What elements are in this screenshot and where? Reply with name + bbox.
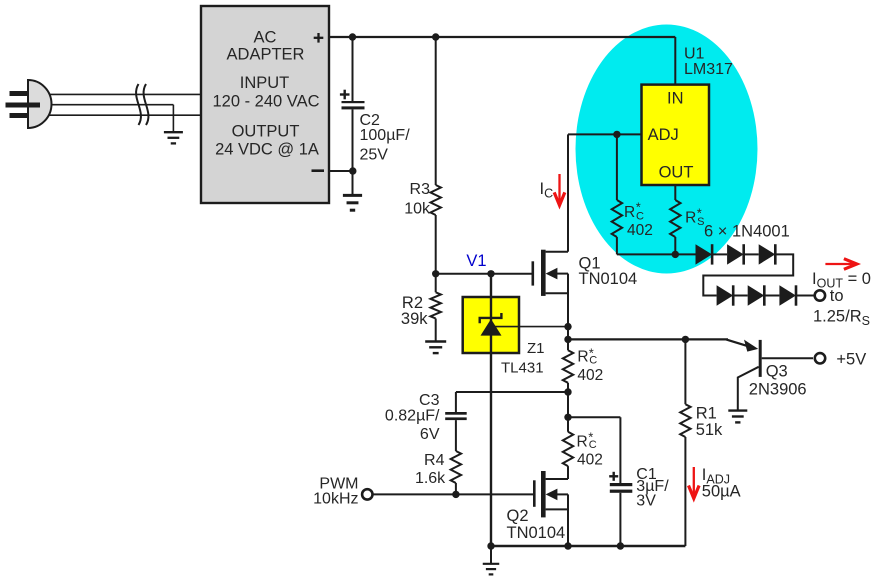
svg-text:Q2: Q2: [507, 507, 529, 525]
svg-text:402: 402: [577, 367, 603, 384]
svg-text:C: C: [589, 355, 597, 367]
svg-text:Z1: Z1: [527, 340, 545, 357]
svg-text:1.25/RS: 1.25/RS: [813, 308, 870, 329]
svg-text:50µA: 50µA: [702, 482, 741, 500]
svg-text:Q3: Q3: [766, 363, 788, 381]
svg-text:6 × 1N4001: 6 × 1N4001: [704, 223, 790, 241]
svg-text:TN0104: TN0104: [579, 270, 638, 288]
svg-text:0.82µF/: 0.82µF/: [385, 408, 440, 425]
svg-text:10k: 10k: [404, 200, 431, 217]
svg-text:+5V: +5V: [836, 351, 866, 369]
svg-text:24 VDC @ 1A: 24 VDC @ 1A: [215, 140, 319, 158]
svg-text:OUT: OUT: [659, 163, 694, 181]
svg-text:IN: IN: [667, 90, 684, 108]
svg-text:LM317: LM317: [684, 61, 733, 78]
svg-text:R: R: [685, 209, 696, 226]
svg-text:100µF/: 100µF/: [360, 127, 411, 144]
svg-text:TL431: TL431: [501, 360, 544, 377]
svg-text:R: R: [577, 349, 588, 366]
svg-text:51k: 51k: [696, 421, 723, 439]
svg-text:V1: V1: [466, 252, 486, 270]
svg-text:ADJ: ADJ: [648, 126, 679, 144]
svg-text:25V: 25V: [360, 146, 389, 163]
svg-text:402: 402: [577, 452, 603, 469]
svg-text:120 - 240 VAC: 120 - 240 VAC: [212, 93, 319, 111]
svg-text:R: R: [624, 204, 635, 221]
svg-text:INPUT: INPUT: [240, 74, 290, 92]
svg-text:ADAPTER: ADAPTER: [227, 46, 305, 64]
svg-text:R3: R3: [410, 181, 431, 198]
svg-text:R: R: [577, 433, 588, 450]
svg-text:R1: R1: [696, 405, 717, 423]
svg-text:3V: 3V: [636, 492, 656, 509]
svg-text:C3: C3: [419, 392, 440, 409]
svg-text:2N3906: 2N3906: [749, 381, 807, 399]
svg-text:C: C: [589, 439, 597, 451]
svg-text:TN0104: TN0104: [507, 524, 566, 542]
svg-text:U1: U1: [684, 46, 705, 63]
svg-text:6V: 6V: [420, 426, 440, 443]
svg-text:OUTPUT: OUTPUT: [232, 122, 300, 140]
svg-text:1.6k: 1.6k: [415, 470, 446, 487]
svg-text:AC: AC: [254, 28, 277, 46]
svg-text:R4: R4: [424, 452, 445, 469]
svg-text:C: C: [636, 211, 644, 223]
svg-text:402: 402: [627, 222, 653, 239]
svg-text:39k: 39k: [401, 310, 428, 328]
svg-text:10kHz: 10kHz: [313, 491, 358, 508]
svg-text:to: to: [830, 287, 844, 305]
